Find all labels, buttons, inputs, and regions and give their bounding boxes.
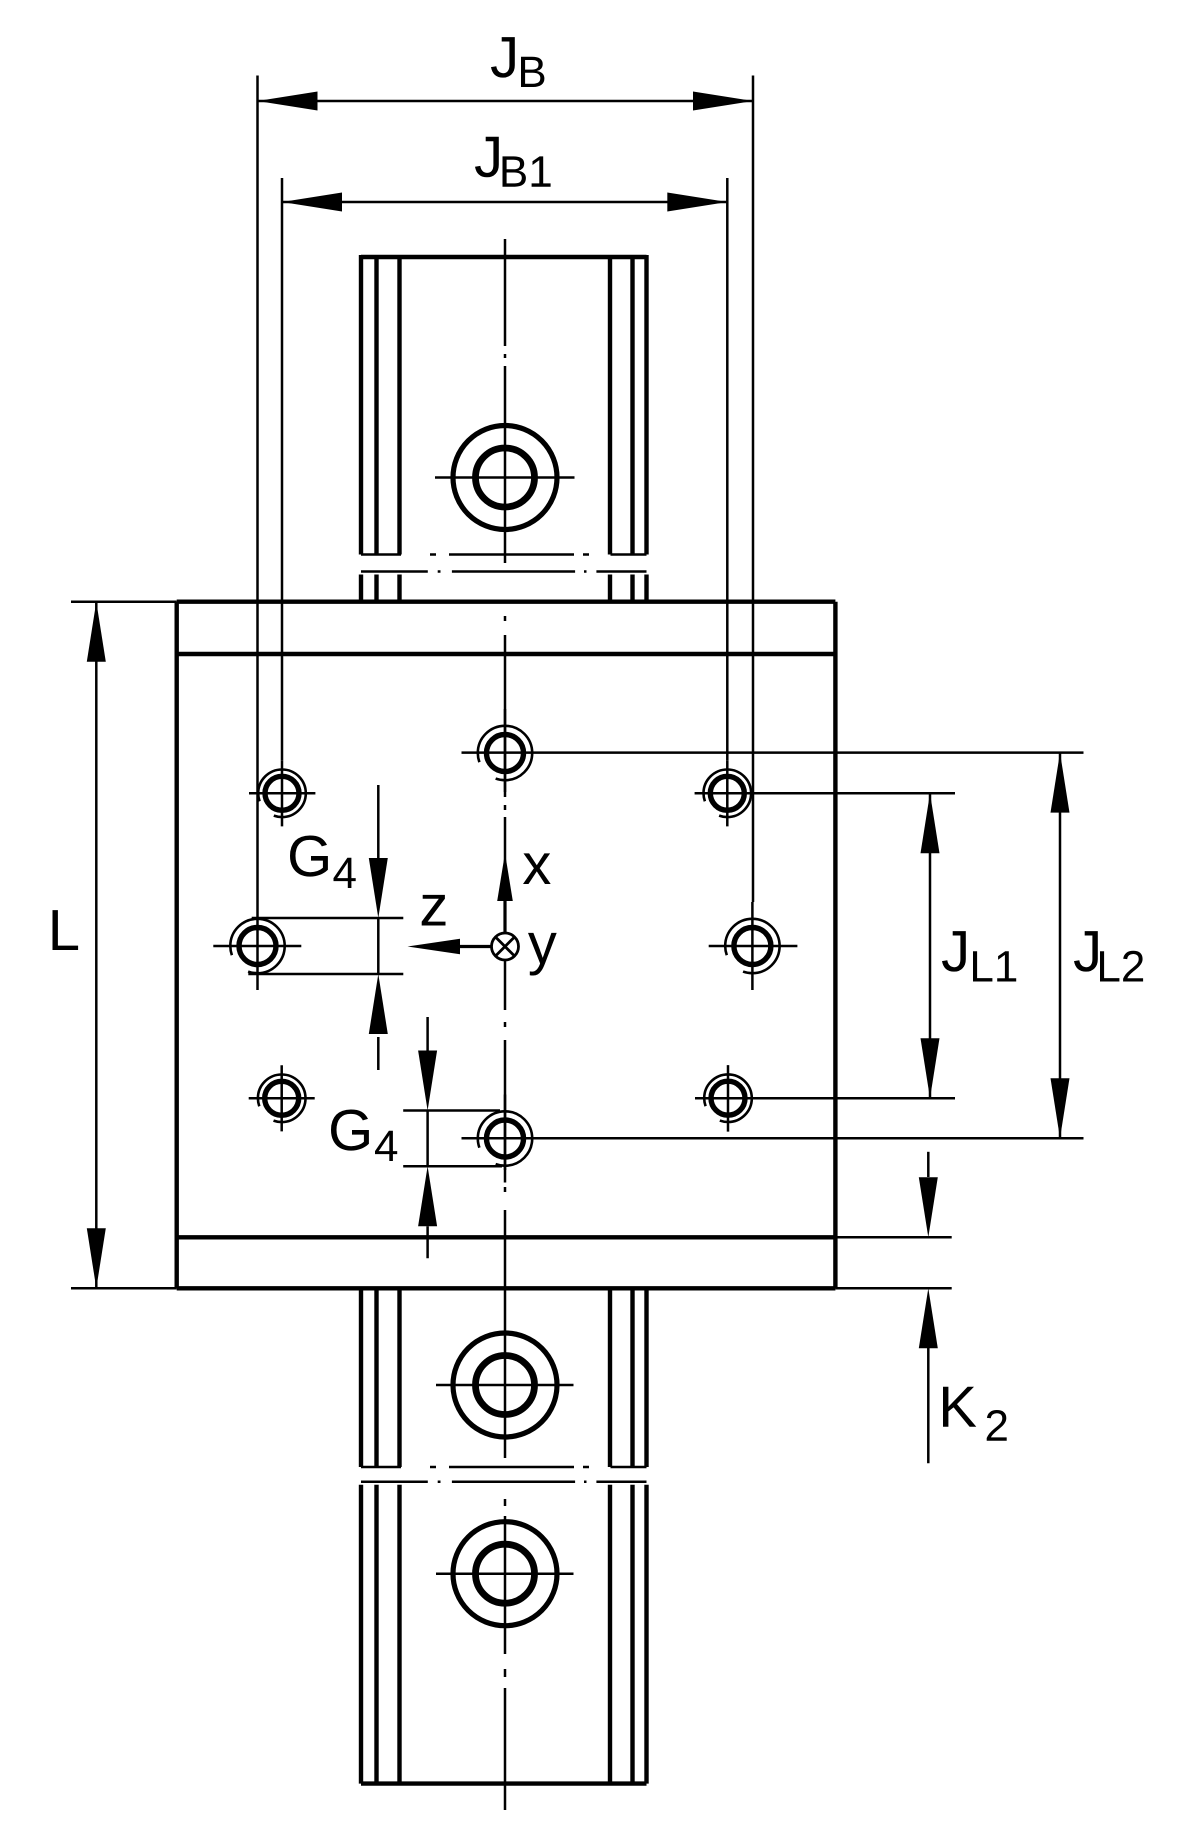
label L — [53, 910, 79, 950]
bolt hole bottom-right — [695, 1065, 759, 1132]
dimension G_4 lower — [403, 1017, 502, 1258]
label J_L1 — [942, 931, 1016, 981]
rail bottom section inner groove lines — [377, 1288, 633, 1783]
label G_4 lower — [331, 1110, 397, 1162]
rail top section inner groove lines — [377, 257, 633, 602]
rail bottom mounting hole 2 — [436, 1522, 574, 1626]
label x axis — [523, 853, 551, 884]
rail break chain lines (bottom) — [361, 1467, 647, 1482]
dimension J_L1 — [695, 793, 955, 1098]
dimension J_B — [258, 76, 754, 903]
bolt hole top-centre — [478, 709, 532, 797]
dimension L — [71, 602, 177, 1289]
rail top section outline — [361, 255, 647, 602]
rail bottom mounting hole 1 — [436, 1333, 574, 1437]
centerline vertical axis of part — [504, 239, 507, 1810]
label J_B — [491, 37, 544, 87]
bolt hole bottom-left — [249, 1065, 315, 1131]
z axis arrow — [408, 939, 492, 955]
rail top mounting hole — [435, 426, 575, 530]
rail break chain lines (top) — [361, 555, 647, 572]
bolt hole mid-right — [709, 902, 798, 990]
dimension K_2 — [835, 1152, 951, 1464]
label J_L2 — [1074, 931, 1143, 981]
label J_B1 — [475, 137, 551, 187]
dimension J_B1 — [282, 178, 727, 760]
rail bottom section outline — [361, 1288, 647, 1783]
label y axis — [528, 933, 557, 976]
dimension G_4 upper — [248, 785, 403, 1070]
carriage body outline — [177, 602, 836, 1289]
dimension J_L2 — [462, 753, 1084, 1139]
label K_2 — [943, 1387, 1007, 1441]
label z axis — [422, 895, 446, 926]
bolt hole top-right — [695, 760, 759, 826]
bolt hole bottom-centre — [478, 1095, 532, 1183]
bolt hole mid-left — [213, 902, 301, 990]
label G_4 upper — [290, 836, 356, 889]
coordinate system origin symbol (y axis into page) — [492, 933, 519, 960]
x axis arrow — [497, 853, 513, 934]
bolt hole top-left — [249, 760, 315, 826]
